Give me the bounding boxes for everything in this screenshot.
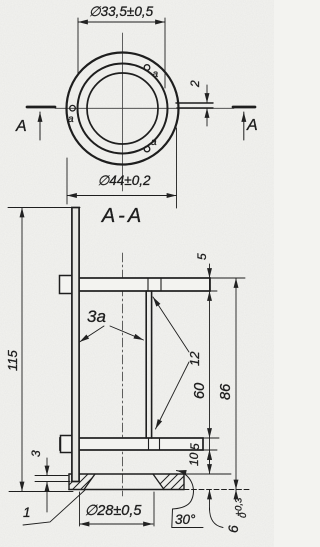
svg-text:A: A xyxy=(15,118,27,135)
centerline dash-dot xyxy=(122,253,124,496)
dimension 6+0,3 arrow xyxy=(209,490,211,511)
band strip (vertical) xyxy=(72,208,79,482)
lower flange left boss xyxy=(61,436,73,453)
upper flange slot tick 1 xyxy=(147,278,149,291)
svg-text:12: 12 xyxy=(187,351,202,366)
svg-text:∅33,5±0,5: ∅33,5±0,5 xyxy=(89,4,154,19)
extension line plate bottom right xyxy=(184,489,249,491)
extension line plate top right xyxy=(184,473,231,475)
hatching left xyxy=(62,472,98,492)
svg-text:a: a xyxy=(151,137,157,148)
dimension 5 upper xyxy=(209,264,211,278)
extension line flange1 top right xyxy=(210,277,245,279)
hatching right xyxy=(152,472,196,492)
svg-text:2: 2 xyxy=(188,80,202,88)
section mark left xyxy=(27,106,55,109)
angle 30 deg leader xyxy=(172,471,194,528)
base plate left edge xyxy=(68,474,70,490)
vertical centerline xyxy=(122,33,124,191)
hole a top-right xyxy=(144,65,150,71)
base plate left chamfer xyxy=(84,474,95,490)
base plate bottom edge xyxy=(69,489,184,491)
extension line flange1 bottom right xyxy=(210,290,217,292)
angle 30 deg shelf xyxy=(172,527,203,529)
svg-text:5: 5 xyxy=(188,443,202,450)
outer circle Ø44 xyxy=(67,53,179,165)
dimension Ø44±0,2 xyxy=(66,158,68,204)
middle circle Ø33,5 xyxy=(78,64,168,154)
hole a left xyxy=(70,105,76,111)
hole a bottom-right xyxy=(144,146,150,152)
lower flange slot tick 1 xyxy=(148,438,150,450)
upper flange plate xyxy=(60,278,210,291)
dimension 60 xyxy=(209,291,211,438)
dimension 5 lower xyxy=(209,450,211,462)
svg-text:A: A xyxy=(246,117,258,134)
svg-text:60: 60 xyxy=(192,383,208,399)
svg-text:10: 10 xyxy=(187,452,201,466)
svg-text:∅44±0,2: ∅44±0,2 xyxy=(98,173,151,188)
svg-text:30°: 30° xyxy=(175,512,196,527)
svg-text:0: 0 xyxy=(238,512,249,518)
inner circle Ø28 xyxy=(87,73,158,144)
section mark right xyxy=(233,106,255,109)
svg-text:A-A: A-A xyxy=(101,205,144,227)
svg-text:5: 5 xyxy=(195,253,209,260)
dimension 10 xyxy=(209,450,211,474)
svg-text:∅28±0,5: ∅28±0,5 xyxy=(85,503,143,519)
rod left edge xyxy=(145,291,147,438)
svg-text:a: a xyxy=(153,69,159,80)
svg-text:6: 6 xyxy=(225,525,241,533)
svg-text:1: 1 xyxy=(23,505,31,520)
dimension Ø28±0,5 xyxy=(79,492,81,526)
upper flange slot tick 2 xyxy=(160,278,162,291)
dimension 3 xyxy=(35,475,68,477)
horizontal centerline xyxy=(55,107,234,109)
rod right edge xyxy=(151,291,153,438)
base plate top edge xyxy=(69,473,184,475)
dimension 115 xyxy=(8,207,80,209)
dimension 6+0,3 hook xyxy=(210,508,224,528)
svg-text:115: 115 xyxy=(5,350,20,371)
extension line flange2 bottom right xyxy=(203,449,217,451)
dimension 86 xyxy=(235,278,237,490)
slit upper line xyxy=(176,102,213,104)
dimension 2 (slit width) xyxy=(206,85,208,103)
slit lower line xyxy=(177,107,213,109)
weld label 3a leaders xyxy=(80,326,105,342)
dimension line shaft through upper flange xyxy=(209,278,211,291)
svg-text:3: 3 xyxy=(29,450,43,457)
lower flange plate xyxy=(60,438,203,450)
dimension Ø33,5±0,5 xyxy=(77,18,79,74)
svg-text:86: 86 xyxy=(218,383,234,400)
base plate right chamfer xyxy=(153,474,164,490)
position label 12 leaders xyxy=(153,297,189,352)
base plate right edge xyxy=(183,474,185,490)
svg-text:3a: 3a xyxy=(87,307,106,326)
dimension 6+0,3 text xyxy=(225,497,249,533)
extension line flange2 top right xyxy=(203,437,219,439)
upper flange left boss xyxy=(60,276,73,294)
position label 1 xyxy=(23,490,85,525)
svg-text:a: a xyxy=(68,114,74,125)
lower flange slot tick 2 xyxy=(159,438,161,450)
